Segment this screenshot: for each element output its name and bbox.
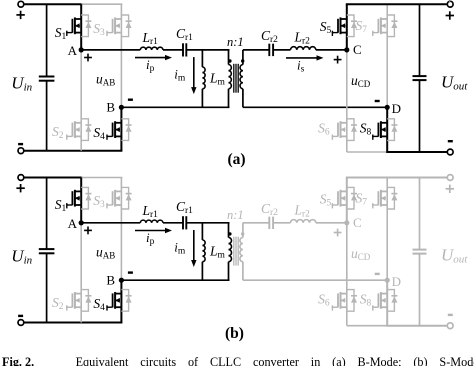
label Cr1 (fig a) xyxy=(176,26,193,43)
wire Lr1 to Cr1 (fig a) xyxy=(163,49,183,51)
wire S3 leg (idle) (fig a) xyxy=(120,4,122,107)
label + (node C) (fig b) xyxy=(334,229,342,237)
inductor Lm (fig a) xyxy=(202,67,205,89)
wire secondary bottom to D (fig b) xyxy=(243,279,387,281)
transformer primary winding (fig b) xyxy=(229,237,232,261)
switch S7 MOSFET (idle) (fig b) xyxy=(372,190,387,209)
capacitor Cr1 (fig b) xyxy=(183,216,186,229)
transformer secondary winding (fig a) xyxy=(240,65,243,89)
transformer secondary polarity dot (fig a) xyxy=(241,59,244,62)
wire top bus primary (fig a) xyxy=(24,3,82,5)
switch S7 MOSFET (idle) (fig a) xyxy=(372,17,387,36)
label Uin (fig a) xyxy=(11,73,32,93)
label S7 (fig b) xyxy=(356,191,368,208)
transformer secondary lead (fig a) xyxy=(242,50,244,107)
wire secondary top to Cr2 (fig b) xyxy=(243,222,270,224)
transformer core (fig b) xyxy=(234,237,238,266)
label - (node B) (fig b) xyxy=(128,271,133,273)
label - (output bottom) (fig b) xyxy=(448,314,453,316)
label S6 (fig b) xyxy=(318,291,330,308)
label S3 (fig a) xyxy=(93,21,105,38)
switch S2 MOSFET (idle) (fig b) xyxy=(66,292,81,311)
wire top bus to S3 leg (idle) (fig a) xyxy=(81,3,122,5)
label S1 (fig b) xyxy=(55,197,67,214)
svg-text:D: D xyxy=(392,274,401,289)
label ip (fig b) xyxy=(146,230,155,247)
switch S6 MOSFET (idle) (fig a) xyxy=(332,121,347,140)
capacitor Cr2 (fig a) xyxy=(269,44,273,56)
wire S7 leg (idle) (fig a) xyxy=(386,4,388,107)
wire Lr2 to C (fig b) xyxy=(316,222,347,224)
label - (input bottom) (fig b) xyxy=(18,315,23,317)
label B (fig a) xyxy=(106,100,115,115)
switch S4 MOSFET (fig b) xyxy=(106,292,121,311)
inductor Lm (fig b) xyxy=(202,240,205,262)
node D (fig a) xyxy=(385,105,390,110)
wire S1 leg (fig a) xyxy=(80,4,82,50)
wire top bus secondary (fig a) xyxy=(346,3,448,5)
capacitor input Cin (fig b) xyxy=(39,178,55,323)
wire S6 leg (idle) (fig b) xyxy=(346,223,348,326)
label Cr2 (fig b) xyxy=(261,201,278,218)
switch S2 MOSFET (idle) (fig a) xyxy=(66,121,81,140)
label Uin (fig b) xyxy=(11,246,32,266)
label S5 (fig b) xyxy=(320,191,332,208)
label ip (fig a) xyxy=(146,57,155,74)
wire Cr2 to Lr2 (fig b) xyxy=(273,222,290,224)
capacitor Cr2 (fig b) xyxy=(269,217,273,229)
capacitor Cr1 (fig a) xyxy=(183,43,186,56)
node B (fig b) xyxy=(119,278,124,283)
switch S6 MOSFET (idle) (fig b) xyxy=(332,292,347,311)
label S4 (fig b) xyxy=(93,296,105,313)
label n:1 (fig b) xyxy=(227,208,244,222)
transformer primary lead (fig a) xyxy=(228,50,230,107)
label A (fig a) xyxy=(68,43,78,58)
transformer secondary polarity dot (fig b) xyxy=(241,232,244,235)
label Lm (fig a) xyxy=(209,71,226,88)
node A (fig a) xyxy=(79,47,84,52)
transformer primary winding (fig a) xyxy=(229,65,232,89)
wire bottom mid B to transformer (fig a) xyxy=(121,106,229,108)
svg-text:(a): (a) xyxy=(227,151,245,168)
switch S5 MOSFET (fig a) xyxy=(332,17,347,36)
crop artifact stub top-right xyxy=(449,0,451,2)
label is (fig a) xyxy=(297,57,305,74)
label + (input top) (fig a) xyxy=(16,11,24,19)
body diode of S1 (fig b) xyxy=(81,187,91,209)
transformer secondary winding (fig b) xyxy=(240,237,243,261)
wire S7 leg (idle) (fig b) xyxy=(386,178,388,281)
wire Cr1 to transformer (fig b) xyxy=(186,222,229,224)
label - (input bottom) (fig a) xyxy=(18,143,23,145)
wire bottom bus primary (fig b) xyxy=(24,322,123,324)
label Cr2 (fig a) xyxy=(261,28,278,45)
wire S5 leg (fig b) xyxy=(346,178,348,223)
svg-text:A: A xyxy=(68,43,78,58)
label - (node D) (fig a) xyxy=(375,100,380,102)
svg-text:(b): (b) xyxy=(225,325,244,342)
terminal + output (fig b) xyxy=(447,175,453,181)
switch S3 MOSFET (idle) (fig a) xyxy=(106,17,121,36)
wire S6 leg (idle) (fig a) xyxy=(346,50,348,152)
label C (fig a) xyxy=(353,42,362,57)
wire S3 leg (idle) (fig b) xyxy=(120,178,122,281)
switch S3 MOSFET (idle) (fig b) xyxy=(106,190,121,209)
label + (output top) (fig a) xyxy=(446,11,454,19)
arrow im (fig a) xyxy=(191,57,196,94)
arrow is (fig a) xyxy=(286,55,324,60)
wire S5 leg (fig a) xyxy=(346,4,348,50)
label uAB (fig a) xyxy=(96,72,115,88)
terminal - output (fig a) xyxy=(447,149,453,155)
inductor Lr1 (fig a) xyxy=(140,47,163,50)
wire Cr2 to Lr2 (fig a) xyxy=(273,49,290,51)
label Cr1 (fig b) xyxy=(176,199,193,216)
label Lr2 (fig b) xyxy=(294,202,311,219)
inductor Lr2 (fig a) xyxy=(291,47,316,50)
body diode of S3 (fig a) xyxy=(121,15,131,37)
body diode of S3 (fig b) xyxy=(121,187,131,209)
wire S8 leg (fig b) xyxy=(386,280,388,326)
label D (fig a) xyxy=(392,101,401,116)
wire S2 leg (idle) (fig b) xyxy=(80,223,82,323)
svg-text:A: A xyxy=(68,216,78,231)
svg-text:C: C xyxy=(353,215,362,230)
label Uout (fig b) xyxy=(441,246,468,266)
label uAB (fig b) xyxy=(96,244,115,260)
label im (fig a) xyxy=(174,66,186,83)
label S4 (fig a) xyxy=(93,125,105,142)
transformer primary lead (fig b) xyxy=(228,223,230,280)
label S2 (fig a) xyxy=(52,124,64,141)
label D (fig b) xyxy=(392,274,401,289)
label + (output top) (fig b) xyxy=(446,185,454,193)
label (b) xyxy=(225,325,244,342)
body diode of S8 (fig b) xyxy=(387,290,397,312)
node B (fig a) xyxy=(119,105,124,110)
body diode of S4 (fig b) xyxy=(121,290,131,312)
label - (node B) (fig a) xyxy=(128,98,133,100)
wire Lr2 to C (fig a) xyxy=(316,49,347,51)
capacitor output Cout (fig a) xyxy=(413,4,427,152)
body diode of S4 (fig a) xyxy=(121,119,131,141)
wire top bus to S3 leg (idle) (fig b) xyxy=(81,177,122,179)
capacitor input Cin (fig a) xyxy=(39,4,55,151)
svg-text:D: D xyxy=(392,101,401,116)
wire top bus secondary (fig b) xyxy=(346,177,448,179)
label S5 (fig a) xyxy=(320,19,332,36)
wire Lm branch (fig a) xyxy=(201,50,203,107)
transformer secondary lead (fig b) xyxy=(242,223,244,280)
capacitor output Cout (fig b) xyxy=(413,178,427,326)
wire secondary top to Cr2 (fig a) xyxy=(243,49,270,51)
label Lr2 (fig a) xyxy=(294,29,311,46)
label Lr1 (fig b) xyxy=(142,203,159,220)
wire S4 leg (fig b) xyxy=(120,280,122,322)
label A (fig b) xyxy=(68,216,78,231)
transformer core (fig a) xyxy=(234,64,238,93)
label + (node A) (fig b) xyxy=(84,227,92,235)
switch S8 MOSFET (fig a) xyxy=(372,121,387,140)
wire Lm branch (fig b) xyxy=(201,223,203,280)
wire A to Lr1 (fig a) xyxy=(81,49,140,51)
node C (fig a) xyxy=(344,47,349,52)
terminal + input (fig a) xyxy=(18,1,24,7)
terminal - output (fig b) xyxy=(447,323,453,329)
label C (fig b) xyxy=(353,215,362,230)
node D (fig b) xyxy=(385,278,390,283)
terminal - input (fig a) xyxy=(18,148,24,154)
label Uout (fig a) xyxy=(441,73,468,93)
transformer primary polarity dot (fig b) xyxy=(228,232,231,235)
wire S4 leg (fig a) xyxy=(120,107,122,150)
label n:1 (fig a) xyxy=(227,35,244,49)
body diode of S5 (fig b) xyxy=(347,187,357,209)
wire Lr1 to Cr1 (fig b) xyxy=(163,222,183,224)
wire Cr1 to transformer (fig a) xyxy=(186,49,229,51)
label + (input top) (fig b) xyxy=(16,184,24,192)
arrow ip (fig a) xyxy=(135,55,172,60)
terminal + output (fig a) xyxy=(447,1,453,7)
wire bottom bus primary (fig a) xyxy=(24,150,123,152)
body diode of S2 (fig b) xyxy=(81,290,91,312)
caption Fig.2 xyxy=(2,355,474,366)
wire bottom bus secondary (fig b) xyxy=(386,325,447,327)
label S8 (fig b) xyxy=(360,291,372,308)
transformer primary polarity dot (fig a) xyxy=(228,59,231,62)
wire secondary bottom to D (fig a) xyxy=(243,106,387,108)
svg-text:B: B xyxy=(106,100,115,115)
body diode of S7 (fig b) xyxy=(387,187,397,209)
label S6 (fig a) xyxy=(318,121,330,138)
body diode of S7 (fig a) xyxy=(387,15,397,37)
svg-text:n:1: n:1 xyxy=(227,35,244,49)
switch S1 MOSFET (fig b) xyxy=(66,190,81,209)
switch S4 MOSFET (fig a) xyxy=(106,121,121,140)
wire bottom bus secondary (fig a) xyxy=(386,151,447,153)
svg-text:C: C xyxy=(353,42,362,57)
label B (fig b) xyxy=(106,272,115,287)
label (a) xyxy=(227,151,245,168)
label S8 (fig a) xyxy=(360,121,372,138)
wire bottom mid B to transformer (fig b) xyxy=(121,279,229,281)
label Lm (fig b) xyxy=(209,244,226,261)
wire secondary bottom bus idle (fig a) xyxy=(347,151,387,153)
wire top bus primary (fig b) xyxy=(24,177,82,179)
body diode of S2 (fig a) xyxy=(81,119,91,141)
label uCD (fig b) xyxy=(351,246,371,262)
wire secondary bottom bus idle (fig b) xyxy=(347,325,387,327)
switch S8 MOSFET (fig b) xyxy=(372,292,387,311)
body diode of S6 (fig b) xyxy=(347,290,357,312)
label - (output bottom) (fig a) xyxy=(448,140,453,142)
label + (node A) (fig a) xyxy=(84,54,92,62)
label im (fig b) xyxy=(174,239,186,256)
label - (node D) (fig b) xyxy=(375,273,380,275)
terminal + input (fig b) xyxy=(18,175,24,181)
svg-text:B: B xyxy=(106,272,115,287)
node C (fig b) xyxy=(344,220,349,225)
label S2 (fig b) xyxy=(52,295,64,312)
body diode of S5 (fig a) xyxy=(347,15,357,37)
switch S5 MOSFET (fig b) xyxy=(332,190,347,209)
body diode of S8 (fig a) xyxy=(387,119,397,141)
label S7 (fig a) xyxy=(356,18,368,35)
switch S1 MOSFET (fig a) xyxy=(66,17,81,36)
wire S1 leg (fig b) xyxy=(80,178,82,223)
node A (fig b) xyxy=(79,220,84,225)
svg-text:n:1: n:1 xyxy=(227,208,244,222)
label S3 (fig b) xyxy=(93,193,105,210)
arrow ip (fig b) xyxy=(135,228,172,233)
wire S2 leg (idle) (fig a) xyxy=(80,50,82,151)
label uCD (fig a) xyxy=(351,73,371,89)
body diode of S6 (fig a) xyxy=(347,119,357,141)
arrow im (fig b) xyxy=(191,230,196,267)
label + (node C) (fig a) xyxy=(334,56,342,64)
label S1 (fig a) xyxy=(55,25,67,42)
label Lr1 (fig a) xyxy=(142,30,159,47)
terminal - input (fig b) xyxy=(18,320,24,326)
inductor Lr2 (fig b) xyxy=(291,220,316,223)
wire A to Lr1 (fig b) xyxy=(81,222,140,224)
wire S8 leg (fig a) xyxy=(386,107,388,152)
body diode of S1 (fig a) xyxy=(81,15,91,37)
inductor Lr1 (fig b) xyxy=(140,220,163,223)
